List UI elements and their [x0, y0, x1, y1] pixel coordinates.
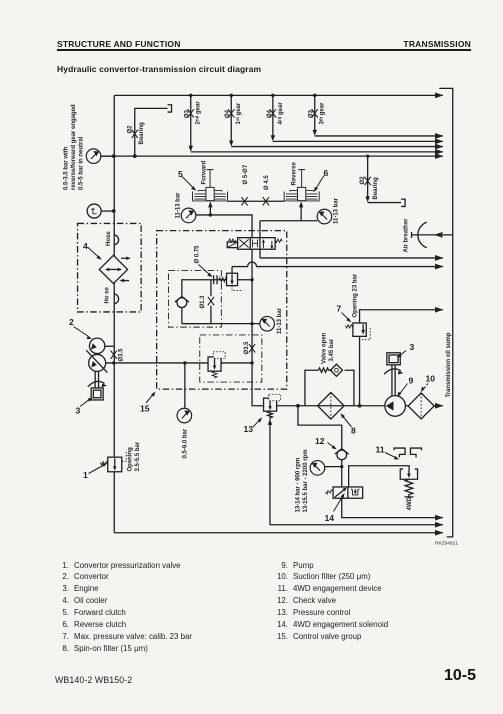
- svg-text:3th gear: 3th gear: [318, 102, 326, 125]
- svg-text:Bearing: Bearing: [373, 177, 379, 200]
- svg-text:13-14 bar - 900 rpm: 13-14 bar - 900 rpm: [295, 458, 301, 513]
- orifice 1st gear: [228, 109, 234, 117]
- 4wd spring: [404, 479, 413, 497]
- legend column 1: [0, 559, 503, 561]
- engine 3 left: [95, 371, 98, 388]
- svg-text:6: 6: [324, 168, 329, 178]
- valve 1 convertor pressurization: [108, 457, 122, 472]
- svg-text:4rd gear: 4rd gear: [276, 102, 284, 125]
- valve A pressure reducing: [227, 273, 238, 285]
- valve 7 max pressure: [353, 323, 366, 336]
- orifice 4th gear: [270, 109, 276, 117]
- gauge 4wd pressure: [310, 461, 325, 476]
- bypass loop spring + check: [305, 370, 354, 406]
- wire clutch bleed line: [228, 200, 285, 202]
- leader 12: [328, 443, 334, 448]
- svg-text:10: 10: [426, 374, 436, 384]
- svg-text:11-13 bar: 11-13 bar: [175, 192, 181, 219]
- svg-text:2: 2: [69, 317, 74, 327]
- leader 8: [343, 417, 352, 428]
- solenoid valve 14: [333, 487, 363, 498]
- svg-text:Ø4: Ø4: [225, 109, 231, 118]
- wire gear drop 2nd: [190, 95, 192, 148]
- wire main center vertical: [252, 249, 263, 406]
- engine 3 right: [392, 365, 395, 396]
- gauge 11-13 bar reverse: [317, 209, 332, 224]
- wire inner loop: [182, 280, 211, 324]
- wire gear drop 4th: [272, 95, 274, 138]
- wire to sump lower with hop: [232, 262, 443, 267]
- svg-text:14: 14: [325, 513, 335, 523]
- svg-text:2nd gear: 2nd gear: [194, 101, 202, 125]
- wire to sump upper: [260, 257, 443, 259]
- svg-text:15: 15: [140, 404, 150, 414]
- orifice Ø5-Ø7: [241, 197, 247, 205]
- convertor 2: [89, 338, 104, 353]
- bearing branch right Ø2: [367, 156, 369, 199]
- gauge feed line mid: [182, 323, 261, 325]
- svg-text:7: 7: [337, 304, 342, 314]
- svg-text:0.5-3.5 bar with: 0.5-3.5 bar with: [64, 146, 70, 190]
- svg-text:Forward: Forward: [201, 160, 207, 184]
- svg-text:11-13 bar: 11-13 bar: [334, 197, 340, 224]
- gauge 11-13 bar forward: [181, 208, 196, 223]
- leader 7: [342, 313, 349, 320]
- wire gear drop 1st: [230, 95, 232, 143]
- node top junctions: [112, 94, 317, 213]
- 4wd actuator piston: [400, 469, 417, 479]
- svg-text:3.5-5.5 bar: 3.5-5.5 bar: [135, 441, 141, 471]
- wire gear bus 1st: [231, 146, 443, 148]
- svg-text:Hose: Hose: [106, 231, 112, 246]
- wire gear bus 2nd: [191, 151, 443, 153]
- svg-text:Transmission oil sump: Transmission oil sump: [446, 332, 452, 397]
- wire valve7 down: [359, 336, 361, 405]
- svg-text:1: 1: [83, 470, 88, 480]
- svg-text:Ø3.5: Ø3.5: [244, 341, 250, 355]
- orifice 3rd gear: [312, 109, 318, 117]
- leader Ø0.75: [199, 265, 210, 275]
- 4wd engagement device 11: [394, 448, 405, 457]
- leader 3 left: [80, 400, 89, 407]
- svg-text:Ø2: Ø2: [360, 176, 366, 185]
- svg-text:3: 3: [410, 342, 415, 352]
- wire forward feed: [196, 215, 252, 238]
- wire 4wd branch: [298, 406, 342, 449]
- svg-text:RKZ04921: RKZ04921: [435, 541, 458, 547]
- wire bottom bus from valve 1: [114, 532, 443, 534]
- svg-text:Ø1.3: Ø1.3: [200, 295, 206, 309]
- svg-text:Ho se: Ho se: [104, 286, 110, 303]
- leader 13: [253, 420, 260, 427]
- page footer: [55, 675, 132, 685]
- transmission case border: [439, 88, 453, 536]
- bearing branch left Ø2: [135, 108, 168, 156]
- svg-text:Ø 0.75: Ø 0.75: [195, 245, 201, 264]
- svg-text:3.45 bar: 3.45 bar: [329, 338, 335, 361]
- group: inner dashed box upper: [168, 271, 221, 328]
- group: inner dash-dot box lower: [200, 335, 262, 382]
- wire valve14 out: [342, 498, 443, 517]
- svg-text:4WD: 4WD: [407, 497, 413, 511]
- wire 4wd actuator feed: [349, 466, 410, 487]
- svg-text:reverse/forward gear engaged: reverse/forward gear engaged: [71, 104, 77, 190]
- svg-text:Bearing: Bearing: [139, 122, 145, 145]
- valve 13 pressure control: [264, 398, 277, 411]
- wire gear drop 3rd: [314, 95, 316, 132]
- wire gear bus 4th: [273, 140, 443, 142]
- svg-text:Opening 23 bar: Opening 23 bar: [353, 273, 359, 317]
- gauge 0.5-3.5 bar: [86, 149, 101, 164]
- leader 10 dashed: [423, 384, 428, 390]
- wire main left vertical: [113, 95, 115, 532]
- svg-text:11: 11: [376, 445, 385, 455]
- svg-text:1st gear: 1st gear: [235, 102, 243, 124]
- leader 5: [182, 177, 194, 189]
- svg-text:5: 5: [178, 169, 183, 179]
- svg-text:Valve open: Valve open: [322, 332, 328, 364]
- pump 9: [385, 396, 406, 417]
- wire top supply line: [114, 94, 443, 96]
- gauge temperature: [87, 204, 101, 218]
- solenoid directional valve U: [227, 238, 282, 250]
- group: oil cooler dash-dot box: [78, 223, 142, 312]
- orifice Ø3.5 center: [249, 344, 255, 352]
- svg-text:Air breather: Air breather: [403, 218, 409, 253]
- wire gauge stub: [101, 155, 114, 157]
- svg-text:11-13 bar: 11-13 bar: [277, 307, 283, 334]
- leader 2: [74, 327, 89, 337]
- leader 1: [89, 466, 104, 474]
- control valve group 15 boundary: [157, 231, 287, 389]
- wire sump main line: [277, 405, 443, 407]
- svg-text:Ø2: Ø2: [128, 125, 134, 134]
- leader 15: [146, 395, 153, 404]
- orifice Ø3.5 left: [111, 351, 117, 359]
- svg-text:Ø3: Ø3: [185, 109, 191, 118]
- svg-text:0.5-9.0 bar: 0.5-9.0 bar: [182, 428, 188, 458]
- suction filter 10: [408, 393, 434, 419]
- valve B pressure reducing: [208, 357, 221, 371]
- clutch F5 forward: [193, 170, 228, 201]
- orifice 2nd gear: [188, 109, 194, 117]
- svg-text:13: 13: [244, 424, 254, 434]
- leader 3 right: [400, 351, 406, 356]
- orifice Ø0.75 restrictor: [211, 275, 227, 284]
- leader 9: [400, 384, 408, 395]
- svg-text:Ø4: Ø4: [267, 109, 273, 118]
- svg-text:0.5-5 bar in neutral: 0.5-5 bar in neutral: [79, 136, 85, 190]
- oil cooler 4: [99, 255, 131, 283]
- orifice Ø1.3: [208, 297, 214, 305]
- svg-text:4: 4: [83, 241, 88, 251]
- svg-text:Ø3.5: Ø3.5: [119, 348, 125, 362]
- leader 11: [385, 453, 396, 458]
- wire convertor out line: [106, 362, 252, 364]
- leader 6: [316, 176, 324, 189]
- leader 4: [88, 247, 99, 257]
- wire bearing bus: [101, 155, 443, 157]
- svg-text:13-15.5 bar - 2200 rpm: 13-15.5 bar - 2200 rpm: [303, 449, 309, 512]
- svg-text:12: 12: [315, 436, 325, 446]
- legend column 2: [272, 560, 388, 644]
- svg-text:Reverse: Reverse: [291, 161, 297, 185]
- clutch R6 reverse: [284, 170, 319, 201]
- svg-text:Opening: Opening: [127, 447, 133, 472]
- page header: [57, 39, 471, 49]
- svg-text:Ø 5-Ø7: Ø 5-Ø7: [243, 164, 249, 184]
- svg-text:Ø 4.5: Ø 4.5: [264, 175, 270, 190]
- svg-text:Ø3: Ø3: [309, 109, 315, 118]
- leader 14: [334, 497, 343, 512]
- wire reverse feed: [260, 220, 317, 222]
- hose upper: [114, 235, 119, 245]
- wire valve right leg: [259, 221, 261, 258]
- svg-text:3: 3: [76, 406, 81, 416]
- wire valve13 return: [269, 423, 271, 525]
- check valve inner: [177, 298, 187, 308]
- filter 8 spin-on: [318, 392, 345, 419]
- orifice Ø4.5: [263, 197, 269, 205]
- svg-text:9: 9: [409, 376, 414, 386]
- air breather: [418, 222, 427, 248]
- check valve 12: [337, 450, 347, 460]
- gauge 0.5-9.0 bar: [184, 363, 186, 408]
- wire gear bus 3rd: [315, 135, 443, 137]
- gauge 11-13 bar mid: [260, 316, 275, 331]
- hose lower: [114, 294, 119, 304]
- wire valve7 top: [360, 310, 443, 323]
- svg-text:8: 8: [351, 426, 356, 436]
